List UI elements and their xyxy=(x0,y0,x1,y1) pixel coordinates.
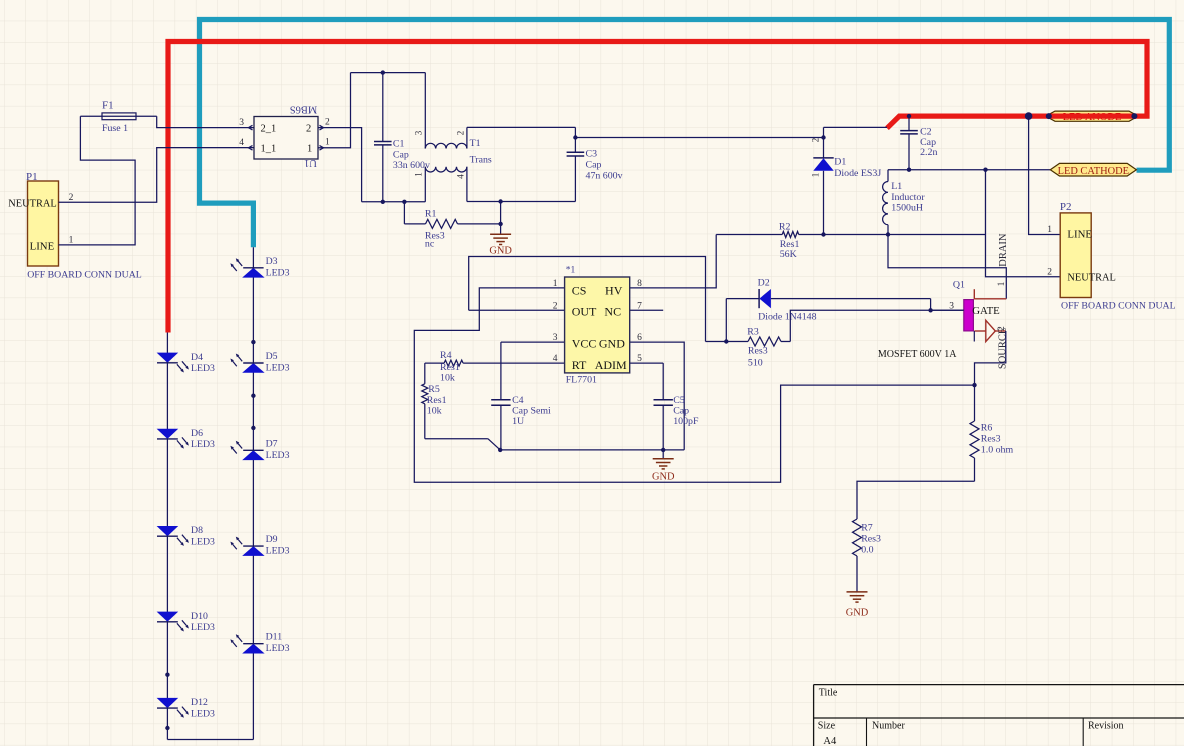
svg-text:Number: Number xyxy=(872,720,905,731)
svg-text:OFF BOARD CONN DUAL: OFF BOARD CONN DUAL xyxy=(1061,300,1176,311)
svg-text:1U: 1U xyxy=(512,416,524,427)
LED D12 xyxy=(157,697,215,719)
svg-text:P1: P1 xyxy=(26,171,38,183)
wire R3 to gate xyxy=(790,310,964,341)
svg-text:1: 1 xyxy=(996,282,1006,287)
svg-text:NEUTRAL: NEUTRAL xyxy=(8,199,56,210)
svg-text:T1: T1 xyxy=(470,138,481,149)
wire source path xyxy=(975,331,1006,421)
wire drain tap xyxy=(888,235,1006,299)
wire red LED-anode bus xyxy=(168,42,1147,333)
svg-text:LED3: LED3 xyxy=(191,622,215,633)
fuse F1 xyxy=(80,100,156,135)
svg-text:1: 1 xyxy=(811,173,821,178)
svg-text:HV: HV xyxy=(605,283,623,297)
svg-text:2: 2 xyxy=(306,124,311,135)
wire HV riser xyxy=(630,235,717,288)
junction right column a xyxy=(251,340,255,344)
svg-text:VCC: VCC xyxy=(572,337,597,351)
svg-text:Diode ES3J: Diode ES3J xyxy=(834,168,881,179)
wire node to R3/D2 xyxy=(706,341,727,343)
svg-text:DRAIN: DRAIN xyxy=(998,233,1009,267)
wire neutral riser xyxy=(986,170,1061,277)
wire D2 branch riser xyxy=(725,299,727,342)
svg-text:OFF BOARD CONN DUAL: OFF BOARD CONN DUAL xyxy=(27,270,142,281)
svg-text:D7: D7 xyxy=(266,438,278,449)
svg-text:F1: F1 xyxy=(102,100,114,112)
svg-text:8: 8 xyxy=(637,279,642,289)
wire LED bottom link xyxy=(167,739,253,741)
svg-text:4: 4 xyxy=(239,138,244,148)
svg-text:A4: A4 xyxy=(823,736,837,746)
transistor Q1 MOSFET xyxy=(878,233,1009,369)
resistor R2 xyxy=(716,222,985,260)
svg-text:0.0: 0.0 xyxy=(861,544,873,555)
bridge rectifier U1 MB6S xyxy=(239,104,330,169)
junction source sense xyxy=(972,383,976,387)
resistor R7 xyxy=(853,519,882,592)
wire P1 pin2 to bridge pin4 xyxy=(59,148,255,203)
svg-text:C4: C4 xyxy=(512,395,524,406)
svg-text:U1: U1 xyxy=(304,157,317,168)
svg-text:10k: 10k xyxy=(440,372,455,383)
svg-text:NEUTRAL: NEUTRAL xyxy=(1067,273,1115,284)
LED D6 xyxy=(157,428,215,450)
capacitor C5 xyxy=(654,363,699,450)
resistor R5 xyxy=(422,363,500,450)
wire LED cathode rail xyxy=(888,169,1050,171)
svg-text:1: 1 xyxy=(69,236,74,246)
svg-text:5: 5 xyxy=(637,354,642,364)
connector P1 xyxy=(8,171,141,281)
LED D4 xyxy=(157,352,215,374)
wire bridge pin2 to bottom rail xyxy=(318,128,362,202)
svg-text:100pF: 100pF xyxy=(673,416,699,427)
svg-text:D1: D1 xyxy=(834,157,846,168)
svg-text:10k: 10k xyxy=(427,405,442,416)
svg-text:R4: R4 xyxy=(440,350,452,361)
svg-text:LED3: LED3 xyxy=(191,363,215,374)
svg-text:2: 2 xyxy=(325,118,330,128)
wire line riser xyxy=(1029,116,1061,234)
svg-text:2_1: 2_1 xyxy=(261,124,277,135)
svg-text:GND: GND xyxy=(489,245,512,256)
resistor R4 xyxy=(440,350,565,384)
ground GND primary xyxy=(489,234,512,256)
svg-text:LED3: LED3 xyxy=(191,439,215,450)
wire GND pin to rail xyxy=(630,342,685,450)
ground GND power xyxy=(846,592,869,619)
wire C3 to D1 xyxy=(575,137,823,139)
svg-text:MB6S: MB6S xyxy=(290,104,318,115)
junction D1 bottom xyxy=(821,232,825,236)
wire secondary bottom rail xyxy=(467,201,576,203)
wire right LED column xyxy=(252,247,254,739)
LED D7 xyxy=(230,438,289,461)
svg-text:Cap Semi: Cap Semi xyxy=(512,405,551,416)
svg-text:Q1: Q1 xyxy=(953,279,965,290)
junction C2 bottom xyxy=(907,168,911,172)
junction C1 top xyxy=(381,70,385,74)
wire bridge pin1 to top rail xyxy=(318,73,351,148)
junction line tap on red bus xyxy=(1025,112,1033,120)
svg-text:D5: D5 xyxy=(266,351,278,362)
svg-text:OUT: OUT xyxy=(572,304,597,318)
svg-text:47n 600v: 47n 600v xyxy=(586,171,623,182)
svg-text:C5: C5 xyxy=(673,395,685,406)
junction C4 bottom xyxy=(498,448,502,452)
svg-text:LED3: LED3 xyxy=(266,450,290,461)
svg-text:Res3: Res3 xyxy=(861,533,881,544)
connector P2 xyxy=(1047,201,1175,311)
svg-text:D2: D2 xyxy=(758,277,770,288)
capacitor C3 xyxy=(567,127,623,201)
svg-text:R5: R5 xyxy=(428,384,440,395)
svg-text:L1: L1 xyxy=(891,181,902,192)
svg-text:D12: D12 xyxy=(191,697,208,708)
wire analog ground rail xyxy=(500,449,684,451)
wire teal LED-cathode bus xyxy=(200,20,1170,248)
svg-text:RT: RT xyxy=(572,358,587,372)
junction left column a xyxy=(165,673,169,677)
svg-text:LED3: LED3 xyxy=(266,363,290,374)
svg-text:*1: *1 xyxy=(566,266,576,276)
junction C3 tap xyxy=(573,135,577,139)
svg-text:4: 4 xyxy=(456,174,466,179)
svg-text:LINE: LINE xyxy=(30,241,55,253)
svg-text:LED CATHODE: LED CATHODE xyxy=(1058,166,1129,177)
junction secondary rail xyxy=(498,199,502,203)
svg-text:R3: R3 xyxy=(747,326,759,337)
wire T1 pin2 to C3 xyxy=(467,126,576,128)
wire RT pin xyxy=(425,362,444,364)
LED D5 xyxy=(230,351,289,374)
svg-text:LED3: LED3 xyxy=(266,643,290,654)
wire D2 to gate xyxy=(930,299,932,311)
svg-text:6: 6 xyxy=(637,333,642,343)
junction right column c xyxy=(251,426,255,430)
svg-text:Res3: Res3 xyxy=(748,345,768,356)
svg-text:D9: D9 xyxy=(266,534,278,545)
svg-text:1: 1 xyxy=(307,144,312,155)
svg-text:1: 1 xyxy=(414,172,424,177)
svg-text:Diode 1N4148: Diode 1N4148 xyxy=(758,311,816,322)
port LED ANODE xyxy=(1046,111,1139,123)
svg-text:1500uH: 1500uH xyxy=(891,202,923,213)
svg-text:D6: D6 xyxy=(191,428,203,439)
wire VCC pin xyxy=(501,341,565,343)
junction left column b xyxy=(165,726,169,730)
junction neutral tap xyxy=(983,168,987,172)
svg-text:Title: Title xyxy=(819,687,838,698)
svg-text:D4: D4 xyxy=(191,352,203,363)
svg-text:C2: C2 xyxy=(920,127,932,138)
svg-text:nc: nc xyxy=(425,239,435,250)
junction right column b xyxy=(251,394,255,398)
svg-text:2.2n: 2.2n xyxy=(920,147,937,158)
diode D1 xyxy=(811,127,882,234)
svg-text:LED3: LED3 xyxy=(266,267,290,278)
wire P1 pin1 to fuse xyxy=(59,116,136,245)
capacitor C4 xyxy=(491,342,551,450)
wire fuse to bridge pin3 xyxy=(157,116,254,127)
junction D1 top xyxy=(821,135,825,139)
svg-text:R1: R1 xyxy=(425,209,437,220)
svg-text:Res3: Res3 xyxy=(981,433,1001,444)
svg-text:P2: P2 xyxy=(1060,201,1072,213)
svg-text:FL7701: FL7701 xyxy=(566,375,597,386)
ground GND analog xyxy=(652,450,675,482)
wire ADIM pin xyxy=(630,362,664,364)
wire OUT rail xyxy=(469,257,706,342)
port LED CATHODE xyxy=(1050,163,1136,176)
junction L1 bottom xyxy=(886,232,890,236)
svg-text:MOSFET 600V 1A: MOSFET 600V 1A xyxy=(878,349,957,360)
wire top rail xyxy=(351,72,426,74)
transformer T1 xyxy=(414,73,492,202)
svg-text:3: 3 xyxy=(414,130,424,135)
wire GND drop xyxy=(500,202,502,235)
LED D11 xyxy=(230,632,289,655)
capacitor C1 xyxy=(374,73,430,202)
junction R3 left xyxy=(724,339,728,343)
wire NC stub xyxy=(630,309,664,311)
svg-text:R6: R6 xyxy=(981,422,993,433)
svg-text:GND: GND xyxy=(652,471,675,482)
svg-text:Revision: Revision xyxy=(1088,720,1124,731)
svg-text:CS: CS xyxy=(572,283,587,297)
wire CS loop xyxy=(414,288,974,482)
svg-text:Size: Size xyxy=(818,720,836,731)
svg-text:2: 2 xyxy=(1047,268,1052,278)
svg-text:Cap: Cap xyxy=(393,149,409,160)
svg-text:3: 3 xyxy=(553,333,558,343)
svg-text:D3: D3 xyxy=(266,256,278,267)
svg-text:2: 2 xyxy=(553,301,558,311)
svg-text:1_1: 1_1 xyxy=(261,144,277,155)
svg-text:LED3: LED3 xyxy=(266,546,290,557)
svg-text:2: 2 xyxy=(69,193,74,203)
wire gate stub xyxy=(931,309,964,311)
wire R6 to R7 xyxy=(857,481,975,519)
svg-text:4: 4 xyxy=(553,354,558,364)
junction C2 top xyxy=(907,114,911,118)
inductor L1 xyxy=(883,170,926,235)
svg-text:C3: C3 xyxy=(586,149,598,160)
LED D10 xyxy=(157,611,215,633)
svg-text:Fuse 1: Fuse 1 xyxy=(102,123,128,134)
svg-text:56K: 56K xyxy=(780,249,798,260)
resistor R1 xyxy=(404,202,500,250)
wire left LED column xyxy=(166,333,168,740)
wire D1 top to red bus xyxy=(824,126,888,128)
diode D2 xyxy=(726,277,930,322)
svg-text:LED3: LED3 xyxy=(191,536,215,547)
svg-text:Res1: Res1 xyxy=(440,362,460,373)
LED D9 xyxy=(230,534,289,557)
svg-text:R2: R2 xyxy=(779,222,791,233)
wire primary bottom rail xyxy=(362,201,426,203)
port LED ANODE tip dots xyxy=(1046,113,1052,119)
svg-text:1: 1 xyxy=(1047,225,1052,235)
svg-text:Res1: Res1 xyxy=(427,395,447,406)
svg-text:LINE: LINE xyxy=(1067,229,1092,241)
junction C5 bottom xyxy=(661,448,665,452)
IC U2 FL7701 xyxy=(553,266,642,386)
junction C1 bottom xyxy=(381,200,385,204)
svg-text:3: 3 xyxy=(239,118,244,128)
svg-text:33n 600v: 33n 600v xyxy=(393,160,430,171)
capacitor C2 xyxy=(900,116,937,170)
junction R1 right xyxy=(498,222,502,226)
svg-text:7: 7 xyxy=(637,301,642,311)
resistor R3 xyxy=(726,326,790,368)
svg-text:C1: C1 xyxy=(393,138,405,149)
svg-text:NC: NC xyxy=(604,304,621,318)
LED D8 xyxy=(157,525,215,547)
wire OUT pin xyxy=(469,309,565,311)
svg-text:GND: GND xyxy=(599,337,625,351)
svg-text:2: 2 xyxy=(811,138,821,143)
svg-text:D11: D11 xyxy=(266,632,283,643)
svg-text:1: 1 xyxy=(553,279,558,289)
svg-text:1: 1 xyxy=(325,138,330,148)
svg-text:Trans: Trans xyxy=(470,155,492,166)
svg-text:1.0 ohm: 1.0 ohm xyxy=(981,444,1014,455)
title block xyxy=(814,685,1184,746)
svg-text:LED3: LED3 xyxy=(191,708,215,719)
svg-text:2: 2 xyxy=(456,131,466,136)
svg-text:ADIM: ADIM xyxy=(595,358,627,372)
junction gate node xyxy=(928,308,932,312)
svg-text:D8: D8 xyxy=(191,525,203,536)
LED D3 xyxy=(230,256,289,279)
svg-text:Cap: Cap xyxy=(673,405,689,416)
svg-text:Inductor: Inductor xyxy=(891,192,925,203)
svg-text:Cap: Cap xyxy=(586,160,602,171)
svg-text:GND: GND xyxy=(846,608,869,619)
svg-text:D10: D10 xyxy=(191,611,208,622)
svg-text:510: 510 xyxy=(748,358,763,369)
svg-text:GATE: GATE xyxy=(972,305,1000,317)
junction R1 left xyxy=(402,200,406,204)
resistor R6 xyxy=(970,421,1013,481)
svg-text:R7: R7 xyxy=(861,522,873,533)
